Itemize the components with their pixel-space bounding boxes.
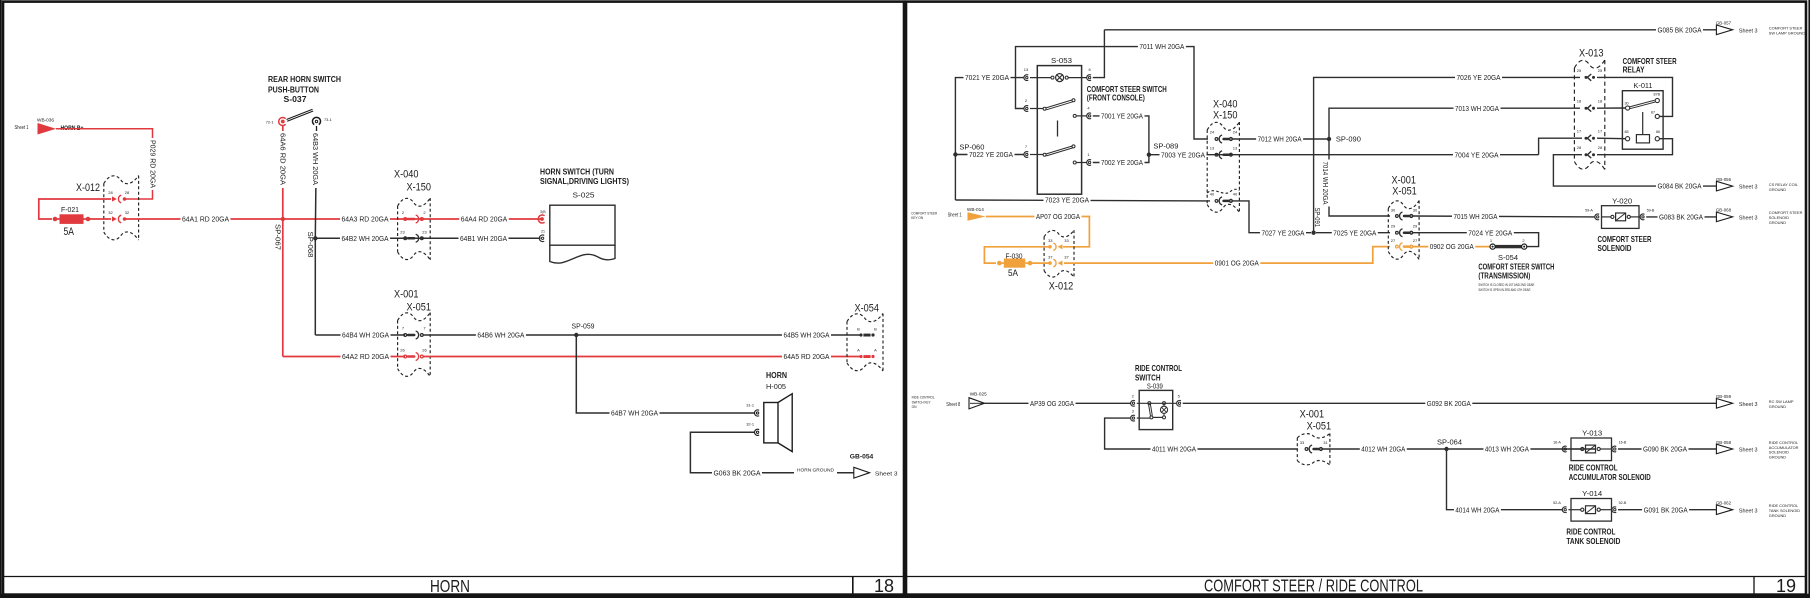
svg-text:5A: 5A bbox=[1008, 268, 1018, 278]
svg-text:64B1 WH 20GA: 64B1 WH 20GA bbox=[460, 234, 507, 243]
svg-text:COMFORT STEER: COMFORT STEER bbox=[911, 211, 937, 215]
svg-text:32: 32 bbox=[125, 210, 130, 215]
svg-text:G090 BK 20GA: G090 BK 20GA bbox=[1643, 445, 1687, 454]
svg-text:Sheet 3: Sheet 3 bbox=[1739, 402, 1758, 408]
svg-text:RIDE CONTROL: RIDE CONTROL bbox=[1135, 363, 1182, 373]
svg-text:GB-059: GB-059 bbox=[1716, 394, 1732, 399]
svg-text:S-025: S-025 bbox=[573, 190, 595, 199]
svg-text:73-1: 73-1 bbox=[324, 117, 332, 122]
svg-text:64A4 RD 20GA: 64A4 RD 20GA bbox=[461, 215, 508, 224]
svg-text:(FRONT CONSOLE): (FRONT CONSOLE) bbox=[1087, 93, 1145, 103]
svg-text:64B6 WH 20GA: 64B6 WH 20GA bbox=[477, 331, 524, 340]
svg-text:59-B: 59-B bbox=[1647, 208, 1655, 212]
svg-text:X-040: X-040 bbox=[394, 169, 419, 181]
svg-text:7001 YE 20GA: 7001 YE 20GA bbox=[1101, 112, 1143, 121]
svg-text:17: 17 bbox=[1577, 128, 1582, 133]
svg-text:25: 25 bbox=[1577, 68, 1582, 73]
svg-text:7002 YE 20GA: 7002 YE 20GA bbox=[1101, 158, 1143, 167]
svg-text:H-005: H-005 bbox=[766, 382, 786, 391]
svg-text:33: 33 bbox=[1064, 238, 1069, 243]
svg-text:X-051: X-051 bbox=[407, 302, 432, 314]
svg-text:G085 BK 20GA: G085 BK 20GA bbox=[1658, 25, 1702, 34]
svg-text:86: 86 bbox=[1656, 130, 1660, 134]
svg-text:Sheet 1: Sheet 1 bbox=[15, 125, 29, 131]
svg-text:P029 RD 20GA: P029 RD 20GA bbox=[148, 140, 157, 188]
svg-text:A: A bbox=[857, 348, 860, 353]
svg-text:PUSH-BUTTON: PUSH-BUTTON bbox=[268, 84, 319, 94]
svg-text:64B2 WH 20GA: 64B2 WH 20GA bbox=[342, 234, 389, 243]
svg-text:GROUND: GROUND bbox=[1769, 404, 1786, 409]
svg-text:Sheet 3: Sheet 3 bbox=[1739, 448, 1758, 454]
svg-text:23: 23 bbox=[400, 230, 405, 235]
svg-text:X-001: X-001 bbox=[1300, 409, 1325, 421]
svg-text:30: 30 bbox=[1624, 101, 1628, 105]
svg-text:29: 29 bbox=[1413, 224, 1418, 229]
svg-text:REAR HORN SWITCH: REAR HORN SWITCH bbox=[268, 74, 341, 84]
svg-text:GB-058: GB-058 bbox=[1716, 440, 1732, 445]
svg-text:40: 40 bbox=[1233, 192, 1238, 197]
svg-text:G092 BK 20GA: G092 BK 20GA bbox=[1427, 399, 1471, 408]
svg-text:SIGNAL,DRIVING LIGHTS): SIGNAL,DRIVING LIGHTS) bbox=[540, 176, 629, 186]
svg-text:HORN SWITCH (TURN: HORN SWITCH (TURN bbox=[540, 167, 614, 177]
svg-text:0902 OG 20GA: 0902 OG 20GA bbox=[1430, 242, 1474, 251]
svg-text:Sheet 3: Sheet 3 bbox=[1739, 28, 1758, 34]
svg-text:52-A: 52-A bbox=[1553, 501, 1561, 505]
svg-text:SP-064: SP-064 bbox=[1437, 439, 1462, 446]
svg-text:17: 17 bbox=[1598, 128, 1603, 133]
svg-text:33: 33 bbox=[1300, 440, 1305, 445]
svg-text:Sheet 3: Sheet 3 bbox=[875, 471, 898, 477]
svg-text:GB-057: GB-057 bbox=[1716, 21, 1732, 26]
svg-text:30: 30 bbox=[1391, 208, 1396, 213]
svg-text:SP-068: SP-068 bbox=[306, 232, 315, 258]
svg-text:S-039: S-039 bbox=[1147, 381, 1163, 390]
svg-text:HORN: HORN bbox=[766, 370, 787, 380]
svg-text:WB-025: WB-025 bbox=[970, 392, 987, 398]
svg-text:18: 18 bbox=[874, 576, 894, 596]
svg-text:AP39 OG 20GA: AP39 OG 20GA bbox=[1030, 399, 1074, 408]
svg-text:28: 28 bbox=[1577, 145, 1582, 150]
svg-text:32-1: 32-1 bbox=[746, 422, 754, 427]
svg-text:GB-062: GB-062 bbox=[1716, 501, 1732, 506]
svg-text:0901 OG 20GA: 0901 OG 20GA bbox=[1215, 259, 1259, 268]
svg-text:3(B: 3(B bbox=[540, 210, 546, 214]
svg-text:X-150: X-150 bbox=[1213, 110, 1238, 122]
svg-text:31: 31 bbox=[1323, 440, 1328, 445]
svg-text:A: A bbox=[874, 348, 877, 353]
svg-text:G063 BK 20GA: G063 BK 20GA bbox=[714, 468, 761, 477]
svg-text:16-B: 16-B bbox=[1619, 441, 1627, 445]
svg-text:HORN: HORN bbox=[430, 576, 470, 596]
svg-text:7024 YE 20GA: 7024 YE 20GA bbox=[1468, 228, 1512, 237]
svg-text:GROUND: GROUND bbox=[1769, 187, 1786, 192]
svg-text:18: 18 bbox=[1577, 98, 1582, 103]
svg-text:GB-054: GB-054 bbox=[850, 453, 874, 460]
svg-text:26: 26 bbox=[422, 348, 427, 353]
svg-text:30: 30 bbox=[1413, 208, 1418, 213]
svg-text:4012 WH 20GA: 4012 WH 20GA bbox=[1361, 445, 1405, 454]
svg-text:64A3 RD 20GA: 64A3 RD 20GA bbox=[342, 215, 389, 224]
svg-text:KEY ON: KEY ON bbox=[911, 216, 923, 220]
svg-text:16-A: 16-A bbox=[1553, 441, 1561, 445]
svg-text:7022 YE 20GA: 7022 YE 20GA bbox=[969, 150, 1013, 159]
svg-text:21: 21 bbox=[541, 230, 545, 234]
svg-text:40: 40 bbox=[1210, 192, 1215, 197]
svg-text:32: 32 bbox=[108, 210, 113, 215]
svg-text:59-A: 59-A bbox=[1585, 208, 1593, 212]
svg-text:RELAY: RELAY bbox=[1623, 65, 1645, 75]
svg-text:64B7 WH 20GA: 64B7 WH 20GA bbox=[611, 409, 658, 418]
svg-text:SP-090: SP-090 bbox=[1336, 137, 1361, 144]
svg-text:F-021: F-021 bbox=[61, 205, 79, 214]
svg-text:K-011: K-011 bbox=[1634, 81, 1653, 90]
svg-text:7013 WH 20GA: 7013 WH 20GA bbox=[1455, 104, 1499, 113]
svg-text:13: 13 bbox=[1233, 145, 1238, 150]
svg-text:S-054: S-054 bbox=[1498, 255, 1518, 262]
svg-text:X-051: X-051 bbox=[1392, 186, 1417, 198]
svg-text:Sheet 3: Sheet 3 bbox=[1739, 508, 1758, 514]
svg-text:S-037: S-037 bbox=[284, 95, 308, 104]
svg-text:23: 23 bbox=[422, 230, 427, 235]
svg-text:SOLENOID: SOLENOID bbox=[1598, 243, 1632, 253]
svg-text:X-150: X-150 bbox=[407, 182, 432, 194]
svg-text:7004 YE 20GA: 7004 YE 20GA bbox=[1455, 150, 1499, 159]
svg-text:25: 25 bbox=[1598, 68, 1603, 73]
svg-text:7026 YE 20GA: 7026 YE 20GA bbox=[1457, 73, 1501, 82]
svg-text:GROUND: GROUND bbox=[1769, 513, 1786, 518]
svg-text:F-030: F-030 bbox=[1006, 251, 1023, 260]
svg-text:64B3 WH 20GA: 64B3 WH 20GA bbox=[311, 133, 320, 185]
svg-text:Y-020: Y-020 bbox=[1612, 197, 1632, 206]
svg-text:64A1 RD 20GA: 64A1 RD 20GA bbox=[182, 215, 229, 224]
svg-text:SWITCH IS CLOSED IN 1ST AND 2N: SWITCH IS CLOSED IN 1ST AND 2ND GEAR bbox=[1478, 283, 1534, 287]
svg-text:72-1: 72-1 bbox=[266, 119, 274, 124]
svg-text:WB-014: WB-014 bbox=[967, 207, 984, 213]
svg-text:HORN GROUND: HORN GROUND bbox=[797, 467, 834, 472]
svg-text:TANK SOLENOID: TANK SOLENOID bbox=[1566, 536, 1620, 546]
svg-text:G091 BK 20GA: G091 BK 20GA bbox=[1644, 505, 1688, 514]
svg-text:SP-059: SP-059 bbox=[572, 321, 595, 330]
svg-text:(TRANSMISSION): (TRANSMISSION) bbox=[1478, 272, 1530, 281]
svg-text:S-053: S-053 bbox=[1051, 56, 1072, 65]
svg-text:87B: 87B bbox=[1654, 92, 1661, 96]
svg-text:X-013: X-013 bbox=[1579, 48, 1604, 60]
svg-text:64A6 RD 20GA: 64A6 RD 20GA bbox=[279, 133, 288, 185]
svg-text:WB-036: WB-036 bbox=[37, 118, 54, 124]
svg-text:B: B bbox=[874, 327, 877, 332]
svg-text:64A5 RD 20GA: 64A5 RD 20GA bbox=[784, 352, 830, 361]
svg-text:37: 37 bbox=[1064, 255, 1069, 260]
svg-text:4013 WH 20GA: 4013 WH 20GA bbox=[1485, 445, 1529, 454]
svg-text:24: 24 bbox=[1210, 130, 1215, 135]
svg-text:COMFORT STEER SWITCH: COMFORT STEER SWITCH bbox=[1478, 262, 1554, 271]
svg-text:7015 WH 20GA: 7015 WH 20GA bbox=[1454, 212, 1498, 221]
svg-text:7025 YE 20GA: 7025 YE 20GA bbox=[1333, 228, 1376, 237]
svg-text:28: 28 bbox=[1598, 145, 1603, 150]
svg-text:Y-013: Y-013 bbox=[1582, 428, 1602, 437]
svg-text:52-B: 52-B bbox=[1619, 501, 1627, 505]
svg-text:X-012: X-012 bbox=[1049, 281, 1074, 293]
svg-text:7021 YE 20GA: 7021 YE 20GA bbox=[965, 73, 1009, 82]
svg-text:G083 BK 20GA: G083 BK 20GA bbox=[1659, 213, 1703, 222]
svg-text:Sheet 1: Sheet 1 bbox=[948, 212, 962, 218]
svg-text:X-054: X-054 bbox=[855, 303, 880, 315]
svg-text:7011 WH 20GA: 7011 WH 20GA bbox=[1139, 42, 1184, 51]
svg-text:GROUND: GROUND bbox=[1769, 220, 1786, 225]
svg-text:7012 WH 20GA: 7012 WH 20GA bbox=[1258, 135, 1302, 144]
svg-text:X-051: X-051 bbox=[1307, 420, 1332, 432]
svg-text:13: 13 bbox=[1024, 67, 1029, 72]
svg-text:Y-014: Y-014 bbox=[1582, 489, 1602, 498]
svg-text:26: 26 bbox=[400, 348, 405, 353]
svg-text:87: 87 bbox=[1651, 111, 1655, 115]
svg-text:27: 27 bbox=[1413, 238, 1418, 243]
svg-text:7014 WH 20GA: 7014 WH 20GA bbox=[1321, 162, 1330, 205]
svg-text:7027 YE 20GA: 7027 YE 20GA bbox=[1262, 228, 1305, 237]
svg-text:GROUND: GROUND bbox=[1769, 455, 1786, 460]
svg-text:33: 33 bbox=[1048, 238, 1053, 243]
svg-text:SWITCH IS OPEN IN 3RD AND 4TH: SWITCH IS OPEN IN 3RD AND 4TH GEAR bbox=[1478, 288, 1530, 292]
svg-text:X-001: X-001 bbox=[394, 289, 419, 301]
svg-text:28: 28 bbox=[108, 190, 113, 195]
svg-text:64A2 RD 20GA: 64A2 RD 20GA bbox=[342, 352, 389, 361]
svg-text:7023 YE 20GA: 7023 YE 20GA bbox=[1045, 196, 1089, 205]
svg-text:B: B bbox=[857, 327, 860, 332]
svg-text:X-012: X-012 bbox=[76, 182, 100, 194]
svg-text:24: 24 bbox=[1233, 130, 1238, 135]
svg-text:GB-068: GB-068 bbox=[1716, 208, 1732, 213]
svg-text:4011 WH 20GA: 4011 WH 20GA bbox=[1152, 445, 1196, 454]
svg-text:85: 85 bbox=[1624, 130, 1628, 134]
svg-text:Sheet 3: Sheet 3 bbox=[1739, 185, 1758, 191]
svg-text:COMFORT STEER / RIDE CONTROL: COMFORT STEER / RIDE CONTROL bbox=[1204, 576, 1423, 596]
svg-text:18: 18 bbox=[1598, 98, 1603, 103]
svg-text:AP07 OG 20GA: AP07 OG 20GA bbox=[1036, 212, 1080, 221]
svg-text:5A: 5A bbox=[64, 226, 75, 238]
svg-text:64B4 WH 20GA: 64B4 WH 20GA bbox=[342, 331, 389, 340]
svg-text:64B5 WH 20GA: 64B5 WH 20GA bbox=[784, 331, 830, 340]
svg-text:SWITCH KEY: SWITCH KEY bbox=[912, 400, 931, 404]
svg-text:31-1: 31-1 bbox=[746, 402, 754, 407]
svg-text:13: 13 bbox=[1210, 145, 1215, 150]
svg-text:G084 BK 20GA: G084 BK 20GA bbox=[1658, 182, 1702, 191]
svg-text:SP-067: SP-067 bbox=[274, 224, 283, 250]
svg-text:7003 YE 20GA: 7003 YE 20GA bbox=[1161, 150, 1205, 159]
svg-text:GB-056: GB-056 bbox=[1716, 177, 1732, 182]
svg-text:19: 19 bbox=[1776, 576, 1796, 596]
svg-text:27: 27 bbox=[1391, 238, 1396, 243]
svg-text:37: 37 bbox=[1048, 255, 1053, 260]
svg-text:4014 WH 20GA: 4014 WH 20GA bbox=[1455, 505, 1499, 514]
svg-text:SW LAMP GROUND: SW LAMP GROUND bbox=[1769, 30, 1805, 35]
svg-text:28: 28 bbox=[125, 190, 130, 195]
svg-text:Sheet 8: Sheet 8 bbox=[946, 402, 960, 408]
svg-text:SP-091: SP-091 bbox=[1313, 208, 1322, 228]
svg-text:ACCUMULATOR SOLENOID: ACCUMULATOR SOLENOID bbox=[1569, 472, 1651, 482]
svg-text:ON: ON bbox=[912, 405, 917, 409]
svg-text:29: 29 bbox=[1391, 224, 1396, 229]
svg-text:Sheet 3: Sheet 3 bbox=[1739, 216, 1758, 222]
svg-text:RIDE CONTROL: RIDE CONTROL bbox=[912, 396, 935, 400]
